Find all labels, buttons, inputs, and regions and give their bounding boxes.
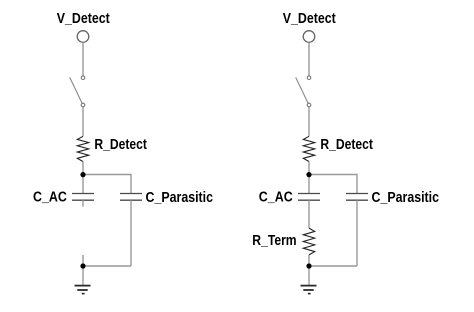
resistor R_Detect (left) bbox=[77, 136, 88, 161]
svg-text:R_Term: R_Term bbox=[252, 233, 296, 249]
wire switch to resistor (right) bbox=[308, 107, 310, 137]
svg-text:C_Parasitic: C_Parasitic bbox=[372, 190, 440, 206]
node B junction dot (left) bbox=[80, 263, 85, 268]
wire node C to C_Parasitic branch (right) bbox=[309, 175, 357, 194]
wire C_Parasitic down to bottom node (right) bbox=[356, 200, 358, 266]
switch SW top terminal (left) bbox=[81, 76, 85, 80]
node C junction dot (right) bbox=[306, 172, 311, 177]
ground (right) bbox=[301, 286, 317, 294]
wire resistor to node C (right) bbox=[308, 162, 310, 194]
wire node D to ground (right) bbox=[308, 266, 310, 285]
wire stub above bottom node (left) bbox=[82, 255, 84, 266]
wire source to switch (left) bbox=[82, 42, 84, 76]
voltage source port V_Detect (left) bbox=[77, 31, 89, 43]
resistor R_Term (right) bbox=[303, 228, 314, 255]
wire resistor to node A (left) bbox=[82, 162, 84, 194]
wire bottom node to C_Parasitic branch (left) bbox=[83, 265, 131, 267]
resistor R_Detect (right) bbox=[303, 136, 314, 161]
svg-text:C_Parasitic: C_Parasitic bbox=[146, 190, 214, 206]
switch SW blade (right) bbox=[296, 77, 308, 103]
capacitor C_Parasitic (left) bbox=[120, 194, 142, 201]
wire R_Term to node D (right) bbox=[308, 255, 310, 266]
wire switch to resistor (left) bbox=[82, 107, 84, 137]
switch SW bottom terminal (left) bbox=[81, 103, 85, 107]
capacitor C_AC (left) bbox=[72, 194, 94, 207]
svg-text:R_Detect: R_Detect bbox=[320, 137, 373, 153]
svg-text:R_Detect: R_Detect bbox=[94, 137, 147, 153]
voltage source port V_Detect (right) bbox=[303, 31, 315, 43]
wire node B to ground (left) bbox=[82, 266, 84, 285]
wire C_AC to R_Term (right) bbox=[308, 200, 310, 228]
switch SW bottom terminal (right) bbox=[307, 103, 311, 107]
svg-text:C_AC: C_AC bbox=[33, 190, 67, 206]
node D junction dot (right) bbox=[306, 263, 311, 268]
ground (left) bbox=[75, 286, 91, 294]
switch SW blade (left) bbox=[70, 77, 82, 103]
capacitor C_Parasitic (right) bbox=[346, 194, 368, 201]
node A junction dot (left) bbox=[80, 172, 85, 177]
wire source to switch (right) bbox=[308, 42, 310, 76]
wire bottom node to C_Parasitic branch (right) bbox=[309, 265, 357, 267]
capacitor C_AC (right) bbox=[298, 194, 320, 201]
wire node A to C_Parasitic branch (left) bbox=[83, 175, 131, 194]
svg-text:V_Detect: V_Detect bbox=[57, 11, 110, 27]
svg-text:V_Detect: V_Detect bbox=[283, 11, 336, 27]
switch SW top terminal (right) bbox=[307, 76, 311, 80]
svg-text:C_AC: C_AC bbox=[259, 190, 293, 206]
wire C_Parasitic down to bottom node (left) bbox=[130, 200, 132, 266]
